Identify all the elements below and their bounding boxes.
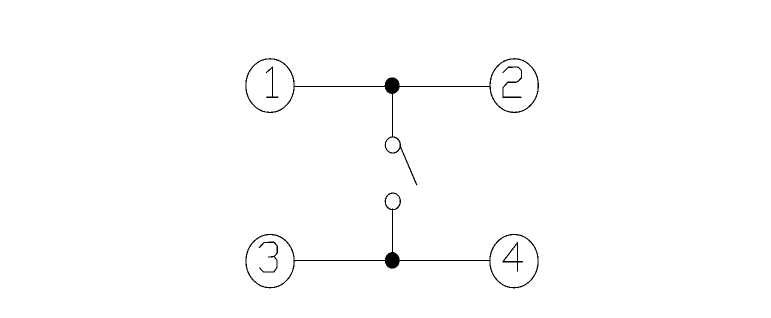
wire pin1 to top junction [294, 85, 392, 87]
switch moving contact (bottom circle) [385, 193, 400, 210]
pin circle 3 [246, 235, 294, 288]
pin 4 label [503, 243, 523, 271]
pin circle 4 [490, 235, 538, 288]
wire top junction to pin2 [392, 85, 490, 87]
switch lever (open) [400, 146, 417, 185]
switch fixed contact (top circle) [385, 137, 400, 153]
pin circle 1 [246, 59, 294, 113]
pin circle 2 [490, 59, 538, 113]
wire bottom junction to pin4 [392, 259, 490, 261]
wire top junction down to fixed contact [392, 86, 394, 137]
pin 2 label [503, 67, 521, 97]
junction dot bottom (pins 3-4 node) [385, 252, 400, 269]
pin 1 label [266, 67, 278, 97]
pin 3 label [259, 242, 277, 272]
junction dot top (pins 1-2 node) [385, 77, 400, 94]
wire pin3 to bottom junction [294, 259, 392, 261]
wire moving contact down to bottom junction [392, 209, 394, 260]
